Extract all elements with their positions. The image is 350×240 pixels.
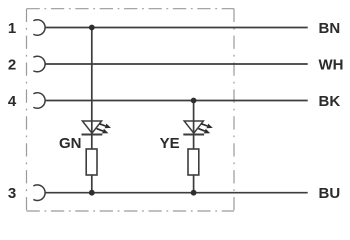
- svg-text:WH: WH: [319, 56, 344, 73]
- pin 2 socket contact arc: [33, 56, 45, 72]
- svg-text:4: 4: [8, 93, 17, 110]
- housing outline dash-dot top edge: [27, 8, 235, 10]
- housing outline dash-dot right edge: [233, 9, 235, 211]
- wire pin1 to BN: [45, 27, 308, 29]
- LED YE emission arrow upper: [201, 124, 213, 129]
- wire pin2 to WH: [45, 63, 308, 65]
- LED GN emission arrow upper: [99, 124, 111, 129]
- LED GN triangle: [82, 121, 101, 133]
- svg-text:BK: BK: [319, 93, 341, 110]
- svg-text:YE: YE: [160, 135, 180, 152]
- housing outline dash-dot left edge: [26, 9, 28, 211]
- wire vertical branch 2 (pin4 to pin3): [193, 101, 195, 193]
- LED GN emission arrow lower: [97, 129, 109, 134]
- resistor R1: [86, 149, 97, 175]
- svg-text:2: 2: [8, 56, 16, 73]
- pin 1 socket contact arc: [33, 20, 45, 36]
- svg-text:GN: GN: [59, 135, 82, 152]
- svg-text:1: 1: [8, 20, 16, 37]
- junction node wire4(pin3)/branch2: [191, 190, 197, 196]
- LED YE emission arrow lower: [198, 129, 210, 134]
- junction node wire3(pin3)/branch1: [89, 190, 95, 196]
- resistor R2: [188, 149, 199, 175]
- pin 3 socket contact arc: [33, 185, 45, 201]
- junction node wire1/branch1: [89, 25, 95, 31]
- wire pin4 to BK: [45, 100, 308, 102]
- LED GN cathode bar: [82, 134, 103, 136]
- pin 4 socket contact arc: [33, 93, 45, 109]
- housing outline dash-dot bottom edge: [27, 210, 235, 212]
- LED YE triangle: [184, 121, 203, 133]
- wire vertical branch 1 (pin1 to pin3): [91, 28, 93, 193]
- svg-text:BN: BN: [319, 20, 341, 37]
- LED YE cathode bar: [183, 134, 204, 136]
- svg-text:BU: BU: [319, 185, 341, 202]
- svg-text:3: 3: [8, 185, 16, 202]
- wire pin3 to BU: [45, 192, 308, 194]
- junction node wire3(BK)/branch2: [191, 98, 197, 104]
